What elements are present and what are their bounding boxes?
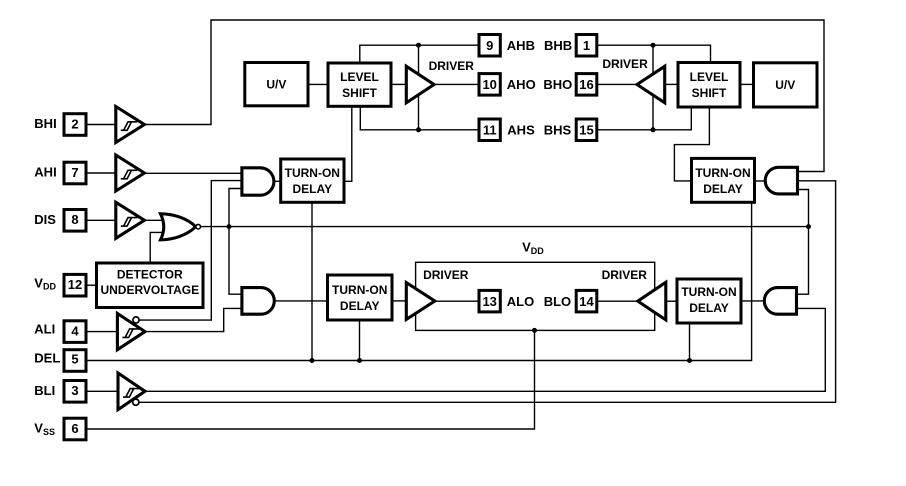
wire level shift A to driver A-high <box>391 83 407 85</box>
wire turn-on delay A-low to driver A-low <box>392 300 407 302</box>
pin 10 AHO <box>479 74 500 96</box>
wire upper-left AND to turn-on delay <box>272 180 281 182</box>
BLI inverted output bubble <box>133 399 139 405</box>
svg-text:LEVEL: LEVEL <box>690 70 729 84</box>
schmitt glyph DIS <box>121 218 138 227</box>
svg-text:AHO: AHO <box>507 77 536 92</box>
pin 8 DIS <box>64 210 86 232</box>
wire AHI buffer to AND A-high <box>145 172 243 174</box>
ALI inverted output bubble <box>133 317 139 323</box>
driver block rectangle VDD <box>416 262 655 330</box>
wire ALI pin to buffer <box>86 331 118 333</box>
svg-text:8: 8 <box>71 212 78 227</box>
turn-on delay box A-low <box>328 275 393 320</box>
wire disable rail to right AND gates <box>797 190 809 295</box>
wire driver B-low to turn-on delay B-low <box>666 300 678 302</box>
wire turn-on delay A-high to level shift <box>344 107 352 181</box>
wire BHS pin to level shift B <box>597 105 692 130</box>
schmitt glyph BHI <box>121 122 138 131</box>
level shift box A <box>328 63 391 106</box>
wire NOR output disable rail <box>200 226 808 228</box>
svg-text:7: 7 <box>71 165 78 180</box>
svg-text:UNDERVOLTAGE: UNDERVOLTAGE <box>100 283 199 297</box>
junction VSS driver block <box>532 328 537 333</box>
wire lower-left AND to turn-on delay A-low <box>273 300 328 302</box>
svg-text:16: 16 <box>579 77 593 92</box>
wire driver A-low to ALO pin <box>435 300 479 302</box>
wire BLI buffer output to lower-right AND <box>145 308 825 391</box>
svg-text:TURN-ON: TURN-ON <box>681 285 736 299</box>
wire ALI inverted output to upper-left AND <box>139 181 242 321</box>
svg-text:DELAY: DELAY <box>703 182 743 196</box>
svg-text:TURN-ON: TURN-ON <box>285 166 340 180</box>
turn-on delay box B-low <box>677 279 741 323</box>
AND gate B-high (mirrored) <box>765 167 797 194</box>
junction AHB bootstrap <box>416 43 421 48</box>
svg-text:U/V: U/V <box>775 78 795 92</box>
wire BHI pin to buffer <box>86 124 116 126</box>
svg-text:TURN-ON: TURN-ON <box>695 166 750 180</box>
svg-text:BLI: BLI <box>34 383 55 398</box>
pin 1 BHB <box>576 35 597 57</box>
pin 14 BLO <box>576 290 597 312</box>
svg-text:ALI: ALI <box>34 322 55 337</box>
driver B-low triangle <box>638 282 666 320</box>
NOR output bubble <box>196 224 201 229</box>
wire VSS pin to driver block <box>86 330 535 429</box>
wire upper-right AND to turn-on delay B-high <box>754 180 766 182</box>
wire AHI pin to buffer <box>86 172 116 174</box>
buffer ALI <box>117 314 145 350</box>
wire DIS pin to buffer <box>86 219 116 221</box>
svg-text:ALO: ALO <box>507 294 534 309</box>
wire turn-on delay B-low to DEL rail <box>689 321 691 361</box>
junction DEL delay A-high <box>310 358 315 363</box>
svg-text:DELAY: DELAY <box>340 299 380 313</box>
wire DIS buffer to NOR input <box>145 219 167 221</box>
NOR gate disable <box>161 214 196 240</box>
pin 2 BHI <box>64 114 86 136</box>
svg-text:14: 14 <box>579 294 594 309</box>
pin 16 BHO <box>576 74 597 96</box>
pin 9 AHB <box>479 35 500 57</box>
schmitt glyph AHI <box>121 170 138 179</box>
svg-text:BHB: BHB <box>544 38 572 53</box>
wire disable rail to upper-left AND and lower-left AND <box>229 189 242 295</box>
pin 12 VDD <box>64 274 86 296</box>
wire VDD pin to detector <box>86 284 97 286</box>
wire level shift A to AHB rail <box>360 45 479 64</box>
wire undervoltage detector to NOR input <box>150 232 166 264</box>
undervoltage detector box <box>97 263 204 308</box>
svg-text:TURN-ON: TURN-ON <box>332 283 387 297</box>
junction DEL delay B-low <box>687 358 692 363</box>
svg-text:6: 6 <box>71 421 78 436</box>
svg-text:12: 12 <box>68 277 82 292</box>
svg-text:SHIFT: SHIFT <box>342 86 377 100</box>
wire BLO pin to driver B-low <box>597 300 639 302</box>
AND gate A-high <box>242 168 274 195</box>
buffer DIS <box>116 202 145 238</box>
svg-text:3: 3 <box>71 383 78 398</box>
svg-text:DELAY: DELAY <box>689 301 729 315</box>
wire ALI buffer output to lower-left AND <box>145 308 242 331</box>
svg-text:4: 4 <box>71 323 79 338</box>
wire BHB to BHS bootstrap <box>652 45 654 130</box>
turn-on delay box A-high <box>281 159 344 202</box>
pin 4 ALI <box>64 321 86 343</box>
schmitt glyph BLI <box>123 389 140 398</box>
wire turn-on delay A-high to DEL rail <box>311 201 313 361</box>
wire BHO pin to driver B-high <box>597 83 638 85</box>
svg-text:9: 9 <box>486 38 493 53</box>
svg-text:DRIVER: DRIVER <box>423 268 469 282</box>
svg-text:AHI: AHI <box>34 165 56 180</box>
wire DEL rail <box>86 202 752 361</box>
buffer BHI <box>116 107 145 143</box>
svg-text:1: 1 <box>583 38 590 53</box>
AND gate B-low (mirrored) <box>764 288 796 315</box>
U/V box A <box>245 63 308 106</box>
wire driver B-high to level shift B <box>665 83 679 85</box>
wire level shift A to AHS rail <box>360 105 480 130</box>
svg-text:U/V: U/V <box>266 78 286 92</box>
svg-text:5: 5 <box>71 351 78 366</box>
wire U/V A to level shift A <box>308 83 328 85</box>
driver B-high triangle <box>637 66 665 103</box>
junction disable rail right <box>806 224 811 229</box>
svg-text:DETECTOR: DETECTOR <box>117 268 183 282</box>
svg-text:10: 10 <box>482 77 496 92</box>
wire turn-on delay B-low to lower-right AND <box>741 300 766 302</box>
turn-on delay box B-high <box>692 158 755 202</box>
AND gate A-low <box>242 288 274 315</box>
wire level shift B to turn-on delay B-high <box>674 105 709 181</box>
wire BHB pin to level shift B <box>597 45 711 64</box>
svg-text:DRIVER: DRIVER <box>429 59 475 73</box>
svg-text:AHB: AHB <box>507 38 535 53</box>
pin 7 AHI <box>64 162 86 184</box>
driver A-high triangle <box>406 66 434 103</box>
svg-text:11: 11 <box>483 123 497 138</box>
svg-text:BHS: BHS <box>544 123 572 138</box>
wire AHB to AHS bootstrap <box>418 45 420 130</box>
svg-text:BLO: BLO <box>544 294 571 309</box>
wire BLI pin to buffer <box>86 390 118 392</box>
svg-text:SHIFT: SHIFT <box>692 86 727 100</box>
level shift box B <box>678 63 740 108</box>
junction BHS bootstrap <box>651 127 656 132</box>
svg-text:LEVEL: LEVEL <box>340 70 379 84</box>
pin 3 BLI <box>64 381 86 403</box>
driver A-low triangle <box>406 283 435 320</box>
wire BHI buffer output up over top border to right AND input <box>145 20 825 172</box>
pin 13 ALO <box>479 290 500 312</box>
schmitt glyph ALI <box>122 329 138 338</box>
buffer BLI <box>118 373 145 410</box>
svg-text:BHI: BHI <box>34 116 56 131</box>
svg-text:BHO: BHO <box>543 77 572 92</box>
U/V box B <box>754 63 818 107</box>
svg-text:13: 13 <box>482 294 496 309</box>
pin 6 VSS <box>64 418 86 440</box>
svg-text:DEL: DEL <box>34 350 60 365</box>
junction AHS bootstrap <box>416 127 421 132</box>
svg-text:DIS: DIS <box>34 212 56 227</box>
wire level shift B to U/V B <box>740 83 754 85</box>
pin 5 DEL <box>64 350 86 372</box>
wire BLI inverted output to upper-right AND <box>139 181 836 402</box>
svg-text:DELAY: DELAY <box>293 182 333 196</box>
wire driver A-high to AHO pin <box>434 83 479 85</box>
svg-text:DRIVER: DRIVER <box>602 57 648 71</box>
svg-text:DRIVER: DRIVER <box>602 268 648 282</box>
pin 15 BHS <box>576 119 597 141</box>
buffer AHI <box>116 155 145 191</box>
junction BHB bootstrap <box>651 43 656 48</box>
svg-text:15: 15 <box>579 123 593 138</box>
junction disable rail left <box>227 224 232 229</box>
wire turn-on delay A-low to DEL rail <box>359 318 361 361</box>
svg-text:2: 2 <box>71 116 78 131</box>
svg-text:AHS: AHS <box>507 123 535 138</box>
pin 11 AHS <box>479 119 500 141</box>
junction DEL delay A-low <box>357 358 362 363</box>
